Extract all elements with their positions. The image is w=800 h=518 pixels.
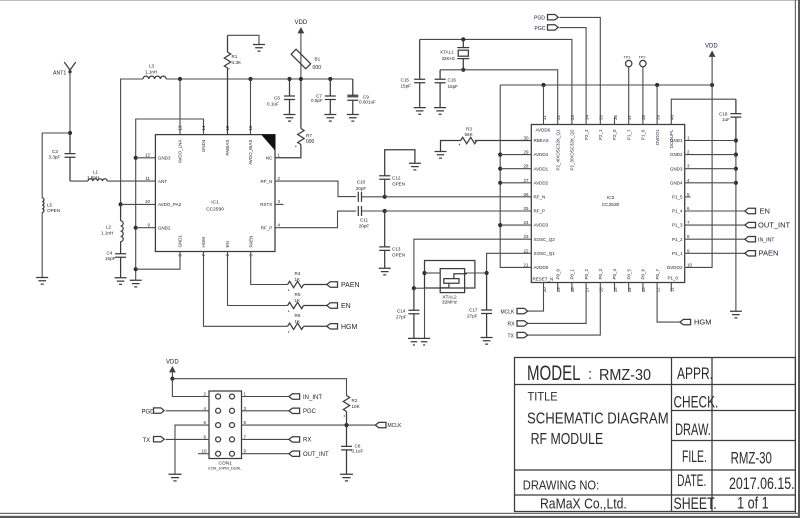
- wire L5 to ground: [41, 212, 43, 277]
- wire pin4 GND4: [685, 182, 736, 184]
- wire ANT row: [70, 180, 88, 182]
- svg-text:GND2: GND2: [670, 152, 683, 157]
- wire pin16 to TX: [528, 283, 601, 336]
- svg-text:DRAWING NO:: DRAWING NO:: [523, 477, 599, 492]
- node VDD tee: [170, 377, 174, 381]
- svg-text:15pF: 15pF: [448, 84, 459, 89]
- svg-text:EN: EN: [225, 241, 230, 247]
- svg-text:P2_4/XOSC32K_Q1: P2_4/XOSC32K_Q1: [555, 129, 560, 171]
- svg-text:IN_INT: IN_INT: [758, 237, 775, 243]
- node L3/L2/pin10 junction: [119, 202, 123, 206]
- wire RF_P to C11: [275, 211, 356, 228]
- svg-text:20: 20: [542, 287, 547, 293]
- svg-text:AVDO_BIAS: AVDO_BIAS: [248, 140, 253, 165]
- svg-text:1 of 1: 1 of 1: [737, 493, 769, 512]
- svg-text:PAEN: PAEN: [759, 249, 779, 258]
- svg-text:B1: B1: [315, 57, 321, 62]
- svg-text:36: 36: [613, 114, 618, 120]
- node RF_P net: [383, 209, 387, 213]
- svg-text:DCOUPL: DCOUPL: [669, 129, 674, 148]
- svg-text:C6: C6: [274, 96, 280, 101]
- capacitor C12: [379, 150, 415, 197]
- svg-text:31: 31: [542, 114, 547, 120]
- svg-text:P2_3/XOSC32K_Q2: P2_3/XOSC32K_Q2: [570, 129, 575, 171]
- svg-text:OPEN: OPEN: [392, 181, 405, 186]
- wire pin39 riser: [656, 85, 658, 125]
- svg-text:L3: L3: [149, 64, 155, 69]
- svg-text:CHECK.: CHECK.: [674, 393, 719, 412]
- net flag RX (CON1): [289, 437, 300, 442]
- wire C11 to node: [362, 210, 385, 212]
- resistor R2: [343, 396, 349, 426]
- net flag EN (IC1): [327, 303, 338, 308]
- svg-text:1K: 1K: [295, 319, 302, 324]
- svg-text:AVDD2: AVDD2: [534, 180, 549, 185]
- wire pin24 AVDD3: [500, 224, 531, 226]
- svg-text:OPEN: OPEN: [392, 253, 405, 258]
- svg-text:CON_10PIN_DUAL: CON_10PIN_DUAL: [208, 466, 241, 470]
- wire RF_N to IC2 pin26: [385, 196, 532, 198]
- svg-text:P0_3: P0_3: [598, 268, 603, 279]
- wire pin5 stub: [685, 196, 691, 198]
- svg-text:HGM: HGM: [201, 237, 206, 248]
- ground (C17): [481, 338, 493, 345]
- svg-text:P2_0: P2_0: [612, 129, 617, 140]
- svg-text:3.3pF: 3.3pF: [49, 154, 61, 159]
- wire HGM pin7 down: [204, 252, 288, 327]
- wire pin16 riser: [250, 79, 252, 135]
- svg-text:GND3: GND3: [158, 156, 171, 161]
- svg-text:14: 14: [201, 125, 206, 131]
- resistor R5: [288, 302, 327, 308]
- svg-text:DATE.: DATE.: [677, 471, 706, 490]
- svg-text:C14: C14: [397, 308, 406, 313]
- wire VDD rail: [166, 78, 353, 80]
- wire VDD down to CON1 pin2: [172, 379, 209, 397]
- svg-text:P1_7: P1_7: [626, 129, 631, 140]
- wire pin9 to PAEN flag: [685, 252, 745, 254]
- svg-text:20pF: 20pF: [356, 186, 367, 191]
- svg-text:R6: R6: [295, 313, 301, 318]
- node VDD/AVDD6: [541, 83, 545, 87]
- wire pin1 to IN_INT: [242, 396, 289, 398]
- node rail/C7: [328, 77, 332, 81]
- test point TP2: [640, 60, 646, 66]
- ground (C16): [434, 108, 446, 115]
- svg-text:XOSC_Q2: XOSC_Q2: [534, 237, 556, 242]
- node bus/GND1: [734, 138, 738, 142]
- svg-text:23: 23: [523, 234, 529, 239]
- svg-text:AVDO_LNA: AVDO_LNA: [178, 140, 183, 164]
- svg-text:DVDO1: DVDO1: [655, 129, 660, 145]
- wire DVDD2 pin10 riser: [685, 85, 712, 267]
- svg-text:TP2: TP2: [639, 56, 646, 60]
- wire RF_N to C10: [275, 181, 356, 197]
- ground (C15): [414, 108, 426, 115]
- svg-text:VDD: VDD: [166, 360, 179, 366]
- svg-text:AVDD6: AVDD6: [536, 128, 551, 133]
- svg-text:56K: 56K: [465, 132, 474, 137]
- wire L3 left leg down to PA2 node: [121, 79, 143, 204]
- svg-text:C17: C17: [469, 308, 478, 313]
- node crystal left terminal: [422, 271, 426, 275]
- svg-text:PABIAS: PABIAS: [225, 140, 230, 156]
- svg-text:34: 34: [584, 114, 589, 120]
- svg-text:RESET_N: RESET_N: [533, 277, 554, 282]
- svg-text:RF_P: RF_P: [261, 226, 273, 231]
- svg-text:P1_3: P1_3: [672, 223, 683, 228]
- node antenna/L5 junction: [68, 131, 72, 135]
- svg-text:PAEN: PAEN: [249, 236, 254, 248]
- svg-text:25: 25: [523, 206, 529, 211]
- wire PGD to pin4: [166, 410, 209, 412]
- wire pin8 to IN_INT flag: [685, 238, 745, 240]
- wire pin3 GND3: [685, 168, 736, 170]
- svg-text:28: 28: [523, 164, 529, 169]
- svg-text:L2: L2: [106, 225, 112, 230]
- svg-text:XTAL2: XTAL2: [442, 294, 457, 300]
- svg-text:R5: R5: [295, 292, 301, 297]
- node gnd bus / GND1 return: [134, 267, 138, 271]
- ground (R1 top): [253, 45, 265, 52]
- capacitor C4: [115, 254, 126, 278]
- svg-text:SHEET.: SHEET.: [674, 494, 717, 513]
- node XOSC_Q1/C17: [485, 271, 489, 275]
- svg-text:AVDD5: AVDD5: [534, 265, 549, 270]
- node bus/GND2: [734, 153, 738, 157]
- ground (L5): [36, 278, 48, 285]
- svg-text:PGC: PGC: [535, 26, 546, 32]
- crystal XTAL1: [457, 39, 469, 69]
- ground (CON1): [169, 474, 182, 481]
- wire crystal terminals: [425, 272, 441, 274]
- capacitor C17: [481, 273, 492, 338]
- svg-text:OPEN: OPEN: [47, 208, 60, 213]
- svg-text:PGD: PGD: [534, 16, 545, 22]
- svg-text:GND2: GND2: [158, 226, 171, 231]
- svg-text:13: 13: [178, 125, 183, 131]
- svg-text:000: 000: [313, 65, 322, 71]
- svg-text:20pF: 20pF: [359, 224, 370, 229]
- svg-text:4.3K: 4.3K: [232, 60, 242, 65]
- svg-text:15: 15: [225, 125, 230, 131]
- wire GND4 loop from pin14: [136, 119, 204, 280]
- svg-text:EN: EN: [760, 206, 770, 215]
- wire PGC to pin34: [559, 28, 586, 125]
- page frame right thick line: [798, 0, 800, 518]
- wire pin18 stub: [571, 283, 573, 292]
- wire pin13 riser: [179, 79, 181, 135]
- svg-text:RF_N: RF_N: [261, 179, 273, 184]
- wire pin13 stub: [642, 283, 644, 292]
- node XOSC_Q2/C14: [412, 286, 416, 290]
- svg-text:APPR.: APPR.: [677, 364, 713, 383]
- ground (R3): [435, 152, 447, 159]
- capacitor C14: [408, 288, 419, 338]
- capacitor C6: [284, 79, 295, 115]
- svg-text:C12: C12: [392, 175, 401, 180]
- svg-text:L1: L1: [93, 170, 99, 175]
- svg-text:XOSC_Q1: XOSC_Q1: [534, 251, 556, 256]
- wire pin10 row: [121, 203, 156, 205]
- wire pin12 to HGM: [657, 283, 680, 323]
- svg-text:P1_4: P1_4: [672, 209, 683, 214]
- svg-text:GND3: GND3: [670, 166, 683, 171]
- wire pin3 to PGC: [242, 410, 289, 412]
- ground (C8): [340, 474, 353, 481]
- svg-text:AVDD1: AVDD1: [534, 166, 549, 171]
- svg-text:SCHEMATIC DIAGRAM: SCHEMATIC DIAGRAM: [527, 410, 669, 427]
- wire pin36 stub: [614, 117, 616, 125]
- svg-text:P2_2: P2_2: [584, 129, 589, 140]
- wire pin17 to RX: [528, 283, 586, 324]
- svg-text:27pF: 27pF: [467, 314, 478, 319]
- svg-text:ANT1: ANT1: [53, 71, 66, 77]
- svg-text:11: 11: [145, 176, 150, 181]
- svg-text:38: 38: [641, 114, 646, 120]
- wire pin7 to OUT_INT flag: [685, 224, 745, 226]
- svg-text:GND1: GND1: [178, 235, 183, 248]
- wire pin7 to RX: [242, 438, 289, 440]
- svg-text:000: 000: [306, 139, 315, 145]
- svg-text:18: 18: [570, 287, 575, 293]
- wire XOSC_Q2 pin23: [414, 239, 531, 288]
- svg-text:PGC: PGC: [303, 409, 317, 415]
- net flag IN_INT: [745, 237, 756, 242]
- svg-text:GND4: GND4: [201, 139, 206, 152]
- svg-text:0.1uF: 0.1uF: [267, 102, 279, 107]
- wire pin9 to OUT_INT: [242, 453, 289, 455]
- svg-text:P0_4: P0_4: [612, 268, 617, 279]
- wire pin10 stub: [198, 453, 209, 455]
- ground (C6): [284, 115, 296, 122]
- ground (C13): [379, 268, 391, 275]
- svg-text:27: 27: [523, 178, 529, 183]
- svg-text:CC2590: CC2590: [206, 207, 224, 213]
- CON1 pin circles: [216, 394, 235, 456]
- wire pin6 to EN flag: [685, 210, 745, 212]
- svg-text:P0_7: P0_7: [655, 268, 660, 279]
- wire pin1 GND1: [685, 140, 736, 142]
- ground (C7): [324, 115, 336, 122]
- ground (C9): [347, 115, 359, 122]
- svg-text:1.1nH: 1.1nH: [145, 70, 157, 75]
- wire pin29 AVDD4: [500, 154, 531, 156]
- svg-text:16: 16: [248, 125, 253, 131]
- svg-text:RMZ-30: RMZ-30: [731, 449, 772, 467]
- svg-text:RMZ-30: RMZ-30: [599, 367, 651, 384]
- svg-text:P1_2: P1_2: [672, 237, 683, 242]
- svg-text:0.001uF: 0.001uF: [359, 100, 376, 105]
- svg-text:EN: EN: [341, 303, 351, 310]
- wire DCOUPL pin40: [671, 99, 736, 124]
- wire XOSC_Q1 pin22: [487, 253, 532, 273]
- svg-text:10K: 10K: [352, 404, 361, 409]
- node gnd bus / GND3: [134, 156, 138, 160]
- svg-text:15: 15: [613, 287, 618, 293]
- svg-text:P1_6: P1_6: [641, 129, 646, 140]
- inductor L1: [88, 179, 107, 181]
- svg-text:32: 32: [556, 114, 561, 120]
- net flag RX (IC2): [517, 321, 528, 326]
- wire XOSC32K_Q1 (pin32): [440, 70, 558, 125]
- net flag TX (IC2): [517, 332, 528, 337]
- node bus/pin24: [498, 223, 502, 227]
- svg-text:26: 26: [523, 192, 529, 197]
- svg-text:MCLK: MCLK: [501, 309, 516, 315]
- wire pin31 riser: [543, 85, 545, 125]
- node VDD/DVDO1: [655, 83, 659, 87]
- svg-text:12: 12: [655, 287, 660, 293]
- wire RF_P to IC2 pin25: [385, 210, 532, 212]
- svg-text:P0_0: P0_0: [555, 268, 560, 279]
- title block table: [515, 358, 796, 512]
- svg-text:RaMaX Co.,Ltd.: RaMaX Co.,Ltd.: [540, 497, 627, 513]
- IC U2 IC2 CC2530 body: [531, 125, 684, 283]
- capacitor C16: [435, 70, 446, 108]
- wire pin19 stub: [557, 283, 559, 292]
- svg-text:C4: C4: [107, 250, 113, 255]
- crystal XTAL2 body: [440, 269, 464, 293]
- svg-text:0.5pF: 0.5pF: [311, 98, 323, 103]
- svg-text::: :: [588, 366, 592, 383]
- svg-text:DRAW.: DRAW.: [675, 420, 711, 439]
- svg-text:TP1: TP1: [624, 56, 631, 60]
- wire antenna down: [69, 72, 71, 133]
- svg-text:IN_INT: IN_INT: [303, 395, 322, 401]
- svg-text:GND4: GND4: [670, 180, 683, 185]
- svg-text:OUT_INT: OUT_INT: [758, 220, 791, 229]
- svg-text:C3: C3: [52, 149, 58, 154]
- capacitor C10: [358, 192, 361, 202]
- inductor L2: [121, 204, 124, 253]
- node XTAL1 bottom: [461, 68, 465, 72]
- net flag PAEN (IC2): [745, 251, 756, 256]
- svg-text:P0_1: P0_1: [570, 268, 575, 279]
- wire pin20 to MCLK: [528, 283, 544, 312]
- svg-text:13: 13: [641, 287, 646, 293]
- wire pin27 AVDD2: [500, 182, 531, 184]
- svg-text:1.1nH: 1.1nH: [101, 231, 113, 236]
- inductor L5: [42, 198, 44, 212]
- svg-text:NC: NC: [266, 156, 273, 161]
- svg-text:C13: C13: [392, 247, 401, 252]
- svg-text:TX: TX: [143, 438, 151, 444]
- svg-text:P0_5: P0_5: [626, 268, 631, 279]
- svg-text:0.1uF: 0.1uF: [352, 449, 364, 454]
- svg-text:XTAL1: XTAL1: [440, 49, 454, 54]
- page frame bottom thin line: [0, 512, 800, 514]
- net flag HGM (IC1): [327, 324, 338, 329]
- node R2/C8/MCLK: [344, 423, 348, 427]
- op-amp U1 IC1 CC2590 body: [155, 135, 275, 252]
- svg-text:RX: RX: [303, 438, 311, 444]
- capacitor C15: [414, 39, 425, 107]
- wire pin2 GND2: [685, 154, 736, 156]
- net flag EN (IC2): [745, 208, 756, 213]
- page frame bottom thick line: [0, 516, 800, 518]
- wire pin6 to ground: [175, 425, 209, 474]
- net flag HGM (IC2): [680, 319, 691, 324]
- svg-text:FILE.: FILE.: [682, 447, 707, 466]
- svg-text:35: 35: [599, 114, 604, 120]
- capacitor C9: [347, 79, 358, 115]
- svg-text:P2_1: P2_1: [598, 129, 603, 140]
- wire to L5 branch: [42, 133, 70, 198]
- svg-text:37: 37: [627, 114, 632, 120]
- wire VDD distribution: [500, 84, 712, 86]
- capacitor C3: [65, 133, 76, 181]
- connector CON1 body: [209, 391, 242, 459]
- svg-text:VDD: VDD: [705, 44, 718, 50]
- svg-text:40: 40: [670, 114, 675, 120]
- wire L1 to IC1 pin11: [107, 180, 155, 182]
- wire TP1 to pin37: [628, 67, 630, 125]
- wire XOSC32K_Q2 top (pin33): [420, 39, 572, 124]
- svg-text:ANT: ANT: [158, 179, 167, 184]
- svg-text:27pF: 27pF: [396, 314, 407, 319]
- svg-text:1K: 1K: [295, 277, 302, 282]
- crystal XTAL2 case: [425, 261, 475, 289]
- ground (C12): [409, 163, 421, 170]
- svg-text:19: 19: [556, 287, 561, 293]
- svg-text:33: 33: [570, 114, 575, 120]
- svg-text:RX: RX: [508, 322, 516, 328]
- wire C10 to node: [362, 196, 385, 198]
- svg-text:P1_5: P1_5: [672, 195, 683, 200]
- svg-text:TX: TX: [508, 333, 515, 339]
- svg-text:OUT_INT: OUT_INT: [303, 452, 329, 458]
- node RF_N net: [383, 195, 387, 199]
- svg-text:P0_2: P0_2: [584, 268, 589, 279]
- svg-text:21: 21: [523, 262, 529, 267]
- svg-text:15pF: 15pF: [105, 256, 116, 261]
- svg-text:32MHz: 32MHz: [442, 300, 458, 306]
- svg-text:32KHz: 32KHz: [442, 56, 456, 61]
- net flag PGC (CON1): [289, 408, 300, 413]
- node bus/pin28: [498, 167, 502, 171]
- svg-text:PAEN: PAEN: [341, 282, 360, 289]
- test point TP1: [626, 60, 632, 66]
- wire PGD to pin35: [559, 17, 600, 124]
- svg-text:22: 22: [523, 248, 529, 253]
- svg-text:11: 11: [670, 287, 675, 292]
- svg-text:R7: R7: [306, 133, 312, 138]
- svg-text:C10: C10: [357, 180, 366, 185]
- ground (C14 + case): [408, 338, 430, 345]
- net flag OUT_INT: [745, 222, 756, 227]
- wire VDD to R2: [172, 379, 346, 396]
- net flag IN_INT (CON1): [289, 394, 300, 399]
- antenna ANT1: [64, 62, 76, 73]
- svg-text:CC2530: CC2530: [602, 202, 620, 208]
- resistor R4: [288, 281, 327, 287]
- node bus/GND3: [734, 167, 738, 171]
- svg-text:HGM: HGM: [341, 324, 358, 331]
- svg-text:1.8nH: 1.8nH: [87, 175, 99, 180]
- node bus/pin27: [498, 181, 502, 185]
- node rail/B1: [299, 77, 303, 81]
- wire R1 top to ground: [228, 35, 260, 44]
- svg-text:R1: R1: [232, 54, 238, 59]
- node rail/C6: [287, 77, 291, 81]
- capacitor C11: [358, 206, 361, 216]
- svg-text:39: 39: [655, 114, 660, 120]
- svg-text:1K: 1K: [295, 298, 302, 303]
- tiny dot artifacts near resistors: [228, 68, 460, 417]
- svg-text:C11: C11: [360, 218, 369, 223]
- svg-text:C16: C16: [448, 77, 457, 82]
